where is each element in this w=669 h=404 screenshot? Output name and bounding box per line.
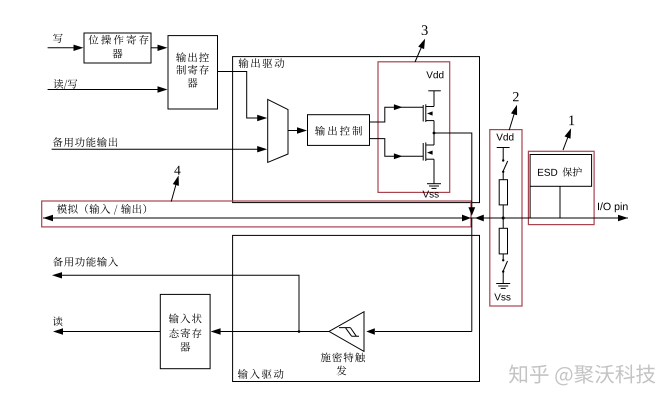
ground + Vss (pull-down) [494,284,510,301]
block: output control 输出控制 [308,115,370,146]
resistor: pull-up [499,180,507,229]
label 模拟（输入/输出） (analog in/out) [57,204,146,215]
wire: output control register -> mux (upper input) [218,72,268,122]
callout red box 2 (pull-up/pull-down) [490,130,522,306]
wire: write -> bit-op register [48,45,84,51]
label 读/写 (read/write) [53,79,77,90]
wire: schmitt output -> input status register [211,328,329,334]
mux (output source select) [268,99,288,162]
transistor P-MOS (upper) [423,104,434,122]
wire: driver output -> I/O line (down arrow) [434,133,475,216]
node: pull network / I/O junction [502,217,505,220]
switch: pull-down enable [502,259,508,283]
wire: read/write -> output control register [48,86,168,92]
switch: pull-up enable [502,159,508,179]
register: output control 输出控制寄存器 [168,36,218,109]
wire: P-MOS drain to N-MOS drain (output node column) [433,121,435,145]
power rail Vdd (pull-up) [496,133,513,159]
wire: I/O junction -> schmitt trigger input [366,218,472,335]
block: input driver box 输入驱动 [233,235,480,381]
wire: bit-op register -> output control register [151,45,168,51]
wire: mux -> output control block [288,127,307,133]
wire: output control -> P-MOS gate [370,104,424,122]
ground + Vss (output driver) [423,159,441,197]
block: ESD protection ESD保护 [530,155,592,187]
label I/O pin [598,202,628,212]
callout red box 1 (ESD protection) [528,151,594,224]
watermark 知乎@聚沃科技 [509,364,657,386]
callout label 4 with arrow [171,166,180,202]
register: bit operation 位操作寄存器 [84,33,151,63]
label 备用功能输出 (alternate function output) [53,137,118,147]
net: I/O line (analog in/out) [43,215,628,222]
callout label 3 with arrow [415,25,428,62]
schmitt trigger 施密特触发 [321,312,365,376]
wire: output control -> N-MOS gate [370,139,424,160]
label 备用功能输入 (alternate function input) [53,257,118,267]
block: output driver box 输出驱动 [233,57,480,203]
wire: tap -> alternate function input [52,272,299,331]
wire: alternate function output -> mux (lower input) [52,146,268,152]
register: input status 输入状态寄存器 [160,294,210,368]
wire: input status register -> read [53,328,160,334]
resistor: pull-down [499,228,507,259]
callout red box 3 (output MOSFET pair) [378,62,450,193]
power rail Vdd (output driver) [426,71,443,106]
node: alternate function input tap [298,330,301,333]
callout label 2 with arrow [509,92,518,130]
transistor N-MOS (lower) [423,142,434,161]
wire: ESD left leg [529,186,531,218]
node: driver output junction [433,132,436,135]
wire: ESD middle leg [559,186,561,218]
label 写 (write) [53,34,63,43]
callout label 1 with arrow [563,115,574,150]
callout red box 4 (analog in/out) [42,201,471,227]
label 读 (read) [53,317,63,327]
